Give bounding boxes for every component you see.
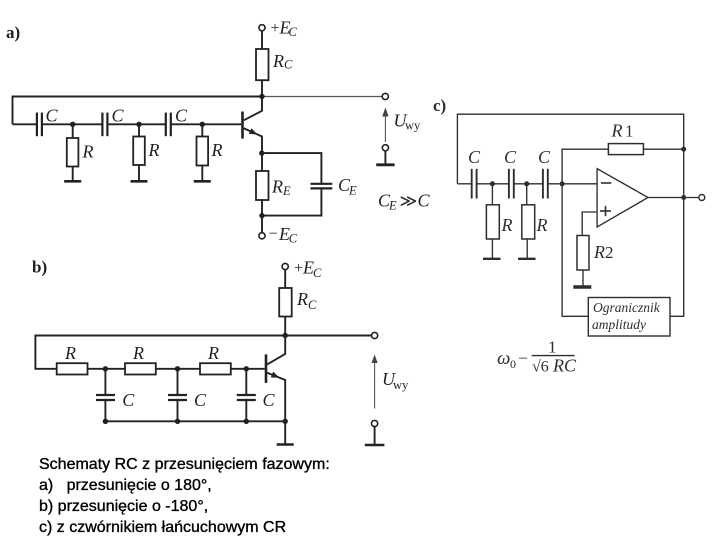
capacitor C (second, panel c): [504, 147, 517, 199]
svg-text:R: R: [207, 343, 219, 363]
wire: R1 to right vertical (panel c): [643, 148, 683, 150]
node after first C: [70, 122, 75, 127]
svg-text:E: E: [348, 184, 357, 198]
output reference terminal with ground (panel b): [365, 420, 385, 445]
wire: ladder segment 1: [13, 123, 37, 125]
resistor R (second series, panel b): [125, 343, 156, 375]
+Ec terminal (panel a): [259, 18, 298, 40]
svg-text:E: E: [282, 184, 291, 198]
wire: feedback rail left + down (panel b): [35, 336, 285, 369]
limiter box Ogranicznik amplitudy (panel c): [588, 298, 670, 337]
wire: ladder segment 2 (panel c): [477, 183, 509, 185]
resistor R2 (panel c): [577, 236, 614, 271]
wire: ladder segment 3: [107, 123, 165, 125]
svg-text:C: C: [418, 191, 431, 211]
svg-text:c): c): [433, 96, 446, 115]
svg-text:C: C: [122, 390, 135, 410]
wire: ladder segment 4 (to base): [171, 123, 241, 125]
svg-text:C: C: [468, 147, 481, 167]
capacitor Ce (panel a): [262, 153, 357, 216]
svg-text:R: R: [593, 242, 605, 262]
svg-text:C: C: [504, 147, 517, 167]
svg-text:+: +: [294, 260, 303, 277]
svg-text:R: R: [82, 142, 94, 162]
svg-text:C: C: [308, 298, 317, 312]
svg-text:R: R: [64, 343, 76, 363]
node 1 (panel c): [490, 181, 495, 186]
svg-text:≫: ≫: [400, 192, 418, 211]
wire: panel a collector-to-output line: [262, 96, 383, 98]
node 2 ladder (panel b): [175, 366, 180, 371]
capacitor C (third, panel a): [166, 106, 188, 137]
node 3 ladder (panel b): [244, 366, 249, 371]
wire: right vertical down to limiter (panel c): [670, 149, 684, 316]
svg-text:2: 2: [605, 243, 614, 262]
svg-text:√6: √6: [532, 359, 549, 376]
formula omega0 = 1/(sqrt6 RC): [497, 338, 577, 376]
transistor Q (panel a): [243, 97, 263, 154]
svg-text:0: 0: [510, 357, 516, 371]
Uwy arrow (panel a): [382, 108, 421, 143]
node 3 input node (panel c): [560, 181, 565, 186]
svg-text:C: C: [175, 106, 188, 126]
svg-text:Ogranicznik: Ogranicznik: [593, 300, 661, 315]
svg-text:C: C: [313, 266, 322, 280]
resistor R (first series, panel b): [57, 343, 88, 375]
capacitor C (second shunt, panel b): [168, 369, 207, 422]
wire: top rail (panel c): [457, 114, 683, 184]
resistor R (third series, panel b): [200, 343, 231, 375]
capacitor C (third shunt, panel b): [237, 369, 276, 422]
resistor Rc (panel b): [279, 270, 317, 336]
ground below second R (panel c): [518, 239, 536, 259]
wire: ladder segment R1-R2 (panel b): [88, 368, 126, 370]
svg-text:−: −: [269, 226, 278, 243]
wire: ladder segment 1 (panel c): [457, 183, 471, 185]
-Ec terminal (panel a): [259, 216, 298, 246]
resistor R (first shunt, panel c): [486, 184, 512, 239]
svg-text:amplitudy: amplitudy: [592, 317, 646, 332]
node dots bottom rail (panel b): [103, 419, 288, 424]
ground below R2 (panel c): [573, 270, 591, 287]
svg-text:C: C: [112, 106, 125, 126]
svg-text:R: R: [536, 215, 548, 235]
output terminal upper (panel a): [382, 93, 388, 99]
svg-text:R: R: [296, 289, 308, 309]
ground below first R: [64, 167, 81, 182]
wire: ladder segment R2-R3 (panel b): [156, 368, 200, 370]
capacitor C (first shunt, panel b): [96, 369, 135, 422]
svg-text:R: R: [211, 140, 223, 160]
svg-text:RC: RC: [552, 356, 577, 376]
caption text block: [39, 454, 330, 538]
wire: feedback branch up from input node (panel c): [562, 149, 608, 184]
svg-text:E: E: [388, 199, 397, 213]
resistor R1 (panel c): [608, 121, 643, 155]
node: collector junction (panel a): [259, 94, 264, 99]
svg-text:C: C: [194, 390, 207, 410]
node 2 (panel c): [524, 181, 529, 186]
node after third C: [200, 122, 205, 127]
+Ec terminal (panel b): [282, 258, 322, 281]
wire: ladder segment R3-base (panel b): [231, 368, 265, 370]
wire: bottom rail (panel b): [105, 420, 285, 422]
svg-text:C: C: [538, 147, 551, 167]
svg-text:C: C: [284, 58, 293, 72]
ground below second R: [131, 165, 148, 181]
svg-text:R: R: [132, 343, 144, 363]
resistor R (second shunt, panel c): [522, 184, 548, 239]
node output (panel c): [681, 195, 686, 200]
resistor Re (panel a): [256, 153, 291, 216]
wire: op-amp output (panel c): [648, 197, 699, 199]
output terminal upper (panel b): [372, 332, 378, 338]
svg-text:C: C: [263, 390, 276, 410]
svg-text:b): b): [32, 258, 47, 277]
svg-text:a): a): [6, 23, 20, 42]
node below Re (panel a): [259, 213, 264, 218]
node: collector junction (panel b): [283, 333, 288, 338]
node: emitter junction (panel a): [259, 150, 264, 155]
ground below third R: [194, 166, 211, 182]
svg-text:1: 1: [625, 122, 634, 141]
svg-text:wy: wy: [393, 378, 409, 392]
svg-text:R: R: [148, 140, 160, 160]
resistor Rc (panel a): [256, 31, 293, 97]
transistor Q (panel b): [266, 336, 285, 422]
wire: ladder segment 3 (panel c): [514, 183, 543, 185]
resistor R (first shunt, panel a): [67, 124, 94, 166]
svg-text:C: C: [289, 25, 298, 39]
capacitor C (second, panel a): [102, 106, 124, 137]
wire: input node down to limiter (panel c): [562, 184, 588, 316]
wire: ladder segment 4 to op-amp input (panel c): [548, 183, 597, 185]
resistor R (third shunt, panel a): [197, 124, 223, 165]
svg-text:wy: wy: [405, 119, 421, 133]
output terminal (panel c): [699, 195, 705, 201]
capacitor C (first, panel a): [37, 106, 59, 137]
svg-text:R: R: [272, 51, 284, 71]
Uwy arrow (panel b): [372, 355, 410, 409]
capacitor C (third, panel c): [538, 147, 551, 199]
svg-text:–: –: [518, 349, 528, 366]
svg-text:ω: ω: [497, 348, 510, 369]
wire: ladder segment 2: [42, 123, 103, 125]
wire: plus input (panel c): [582, 212, 597, 236]
resistor R (second shunt, panel a): [133, 124, 159, 165]
svg-text:1: 1: [548, 338, 557, 357]
node R1 right (panel c): [681, 147, 686, 152]
output reference terminal with ground (panel a): [376, 145, 394, 165]
node after second C: [136, 122, 141, 127]
svg-text:+: +: [271, 20, 280, 37]
svg-text:R: R: [271, 177, 283, 197]
svg-text:C: C: [46, 106, 59, 126]
op-amp U1 (panel c): [597, 169, 648, 227]
node 1 ladder (panel b): [103, 366, 108, 371]
annotation Ce >> C: [378, 191, 431, 213]
wire: panel a feedback rail (left vertical + top horizontal): [13, 97, 263, 125]
svg-text:R: R: [501, 215, 513, 235]
svg-text:C: C: [289, 232, 298, 246]
ground below first R (panel c): [483, 239, 501, 259]
capacitor C (first, panel c): [468, 147, 481, 199]
wire: collector rail to output (panel b): [285, 335, 371, 337]
svg-text:R: R: [611, 121, 623, 141]
ground below transistor (panel b): [277, 421, 294, 444]
